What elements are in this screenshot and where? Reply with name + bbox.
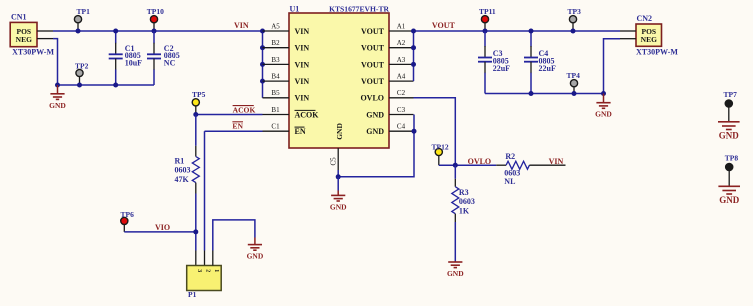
wire GND pins C3 C4 to C5: [338, 115, 414, 177]
wire VOUT right pin bus: [413, 31, 415, 81]
svg-text:C5: C5: [329, 157, 337, 166]
svg-text:1K: 1K: [459, 206, 470, 215]
svg-text:GND: GND: [335, 123, 344, 140]
svg-text:A4: A4: [397, 73, 406, 81]
wire OVLO from U1: [414, 98, 456, 165]
wire P1 pin1 to ground: [213, 220, 255, 251]
svg-text:GND: GND: [719, 195, 740, 205]
junction ground rail/GND4: [601, 91, 606, 96]
svg-text:ACOK: ACOK: [295, 110, 320, 119]
svg-text:A1: A1: [397, 22, 406, 30]
op-amp U1 KTS1677EVH-TR body: [289, 13, 389, 148]
svg-text:VIN: VIN: [295, 94, 310, 103]
svg-text:GND: GND: [49, 101, 66, 110]
svg-text:C1: C1: [271, 123, 280, 131]
pin CN2.2 NEG: [620, 38, 636, 40]
svg-text:GND: GND: [447, 269, 464, 278]
svg-text:2: 2: [205, 269, 211, 272]
capacitor C4: [524, 31, 538, 94]
svg-text:CN2: CN2: [637, 14, 653, 23]
svg-text:TP8: TP8: [725, 153, 739, 162]
pin U1.C3: [389, 114, 414, 116]
svg-text:TP12: TP12: [432, 142, 449, 151]
testpoint TP8: [726, 163, 733, 170]
wire EN vertical to P1: [204, 131, 206, 250]
svg-text:B1: B1: [271, 106, 280, 114]
junction TP4/ground rail: [572, 91, 577, 96]
svg-text:GND: GND: [330, 202, 347, 211]
svg-text:R2: R2: [505, 152, 515, 161]
pin U1.A3: [389, 63, 414, 65]
svg-text:NL: NL: [504, 177, 515, 186]
wire R3 to ground: [454, 222, 456, 261]
svg-text:TP5: TP5: [192, 90, 206, 99]
svg-text:3: 3: [196, 269, 202, 272]
junction bus A3: [411, 62, 416, 67]
junction C4/ground rail: [529, 91, 534, 96]
pin U1.A5: [263, 30, 290, 32]
svg-text:CN1: CN1: [11, 12, 27, 21]
pin TP2: [79, 77, 81, 85]
junction bus A2: [411, 45, 416, 50]
wire right ground rail: [485, 93, 604, 95]
svg-text:TP3: TP3: [568, 7, 582, 16]
testpoint TP10: [150, 16, 157, 23]
pin U1.C5: [337, 148, 339, 170]
junction ground rail / GND: [55, 83, 60, 88]
svg-text:47K: 47K: [175, 175, 190, 184]
capacitor C1: [109, 31, 123, 85]
pin P1.3: [195, 251, 197, 266]
pin U1.C1: [263, 130, 290, 132]
wire ACOK: [196, 114, 263, 116]
connector CN1: [10, 12, 54, 56]
junction TP2/ground rail: [77, 83, 82, 88]
pin R2.1: [496, 164, 506, 166]
junction TP3/VOUT: [571, 29, 576, 34]
pin TP11: [484, 23, 486, 31]
svg-text:B3: B3: [271, 56, 280, 64]
svg-text:VOUT: VOUT: [361, 60, 385, 69]
svg-text:A2: A2: [397, 39, 406, 47]
wire VIO: [124, 231, 196, 233]
svg-text:NC: NC: [164, 58, 176, 67]
ground GND2: [331, 195, 345, 201]
testpoint TP3: [569, 16, 576, 23]
svg-text:VIN: VIN: [549, 157, 564, 166]
svg-text:C3: C3: [397, 106, 406, 114]
svg-text:GND: GND: [366, 127, 384, 136]
pin R1.2: [195, 183, 197, 194]
svg-text:A3: A3: [397, 56, 406, 64]
wire CN2 NEG to ground rail: [604, 39, 621, 94]
pin R3.2: [454, 214, 456, 222]
pin U1.C4: [389, 130, 414, 132]
svg-text:VOUT: VOUT: [361, 27, 385, 36]
svg-text:0603: 0603: [175, 166, 191, 175]
junction TP10/VIN: [152, 29, 157, 34]
pin U1.C2: [389, 97, 414, 99]
connector CN2: [636, 14, 678, 56]
ground GND6 (TP7): [718, 122, 740, 130]
wire U1 C5 down: [337, 170, 339, 177]
pin R3.1: [454, 179, 456, 187]
svg-text:VOUT: VOUT: [361, 77, 385, 86]
ground GND3: [248, 245, 262, 251]
junction bus B3: [260, 62, 265, 67]
capacitor C2: [147, 31, 161, 85]
wire OVLO to R3: [454, 165, 456, 179]
svg-text:VIN: VIN: [295, 77, 310, 86]
testpoint TP1: [74, 16, 81, 23]
ground GND4: [596, 103, 610, 109]
junction TP11/VOUT: [483, 29, 488, 34]
svg-text:OVLO: OVLO: [468, 157, 492, 166]
junction C5/GND net: [336, 174, 341, 179]
junction C4/VOUT: [529, 29, 534, 34]
svg-text:TP6: TP6: [121, 210, 135, 219]
wire VOUT rail: [414, 30, 621, 32]
pin TP8 stub: [728, 171, 730, 187]
pin U1.A1: [389, 30, 414, 32]
svg-text:XT30PW-M: XT30PW-M: [636, 47, 678, 56]
pin TP10: [153, 23, 155, 31]
pin U1.B1: [263, 114, 290, 116]
svg-text:1: 1: [213, 269, 219, 272]
capacitor C3: [478, 31, 492, 94]
pin TP1: [77, 23, 79, 31]
svg-text:U1: U1: [290, 4, 300, 13]
svg-text:22uF: 22uF: [493, 64, 510, 73]
svg-text:B4: B4: [271, 73, 280, 81]
pin P1.1: [212, 251, 214, 266]
svg-text:R1: R1: [175, 157, 185, 166]
pin CN2.1 POS: [620, 30, 636, 32]
svg-text:TP7: TP7: [724, 90, 738, 99]
svg-text:A5: A5: [271, 22, 280, 30]
junction bus B4: [260, 79, 265, 84]
svg-text:C4: C4: [397, 123, 406, 131]
resistor R2: [506, 161, 529, 169]
testpoint TP6: [121, 217, 128, 224]
svg-text:KTS1677EVH-TR: KTS1677EVH-TR: [329, 4, 389, 13]
svg-text:GND: GND: [366, 110, 384, 119]
pin TP5: [195, 106, 197, 115]
svg-text:C2: C2: [397, 89, 406, 97]
pin CN1.2 NEG: [37, 38, 53, 40]
pin R1.1: [195, 146, 197, 157]
svg-text:GND: GND: [247, 252, 264, 261]
svg-text:TP1: TP1: [77, 7, 91, 16]
svg-text:VIO: VIO: [155, 223, 170, 232]
svg-text:OVLO: OVLO: [360, 94, 384, 103]
pin R2.2 and wire to VIN: [529, 164, 565, 166]
wire left ground rail: [58, 84, 155, 86]
junction OVLO/R3: [453, 163, 458, 168]
svg-text:0603: 0603: [459, 197, 475, 206]
wire VIN left pin bus: [262, 31, 264, 98]
ground GND1: [50, 94, 64, 100]
testpoint TP12: [435, 148, 442, 155]
testpoint TP4: [570, 80, 577, 87]
junction C1/ground rail: [113, 83, 118, 88]
svg-text:VOUT: VOUT: [361, 44, 385, 53]
pin P1.2: [204, 251, 206, 266]
junction VOUT bus top: [411, 29, 416, 34]
testpoint TP7: [725, 100, 732, 107]
svg-text:ACOK: ACOK: [233, 106, 256, 115]
svg-text:P1: P1: [188, 290, 197, 299]
svg-text:10uF: 10uF: [125, 58, 142, 67]
svg-text:VOUT: VOUT: [432, 21, 456, 30]
pin CN1.1 POS: [37, 30, 53, 32]
junction VIN bus top: [260, 29, 265, 34]
junction C4 pin/GND net: [412, 129, 417, 134]
wire TP5 to R1: [195, 115, 197, 146]
svg-text:TP10: TP10: [147, 7, 164, 16]
svg-text:EN: EN: [232, 122, 243, 131]
junction bus B2: [260, 45, 265, 50]
pin TP3: [572, 23, 574, 31]
wire R1 to P1 pin3: [195, 194, 197, 251]
pin U1.B5: [263, 97, 290, 99]
pin U1.A2: [389, 47, 414, 49]
pin U1.B3: [263, 63, 290, 65]
junction VIO/R1 net: [193, 229, 198, 234]
svg-text:TP11: TP11: [479, 7, 496, 16]
wire TP12 to R2: [439, 164, 496, 166]
wire CN1 NEG to ground rail: [53, 39, 58, 85]
svg-text:NEG: NEG: [641, 35, 657, 44]
pin U1.A4: [389, 80, 414, 82]
svg-text:VIN: VIN: [234, 21, 249, 30]
wire EN horizontal: [205, 130, 263, 132]
wire VIN rail: [53, 30, 263, 32]
pin U1.B2: [263, 47, 290, 49]
testpoint TP5: [192, 99, 199, 106]
svg-text:B2: B2: [271, 39, 280, 47]
junction C1/VIN: [113, 29, 118, 34]
svg-text:TP4: TP4: [567, 71, 581, 80]
ground GND5: [448, 262, 462, 268]
junction TP5/ACOK: [193, 112, 198, 117]
resistor R3: [452, 187, 459, 214]
svg-text:VIN: VIN: [295, 27, 310, 36]
svg-text:NEG: NEG: [16, 35, 32, 44]
svg-text:VIN: VIN: [295, 60, 310, 69]
pin U1.B4: [263, 80, 290, 82]
svg-text:22uF: 22uF: [539, 64, 556, 73]
ground GND7 (TP8): [718, 186, 740, 194]
testpoint TP11: [481, 16, 488, 23]
svg-text:EN: EN: [295, 127, 306, 136]
svg-text:GND: GND: [719, 131, 740, 141]
junction TP1/VIN: [76, 29, 81, 34]
svg-text:VIN: VIN: [295, 44, 310, 53]
resistor R1: [192, 157, 199, 183]
pin TP4: [573, 87, 575, 94]
pin TP7 stub: [728, 107, 730, 122]
svg-text:GND: GND: [595, 110, 612, 119]
testpoint TP2: [76, 69, 83, 76]
svg-text:R3: R3: [459, 188, 469, 197]
connector P1: [187, 266, 222, 299]
svg-text:TP2: TP2: [75, 62, 89, 71]
pin TP12: [438, 156, 440, 166]
svg-text:B5: B5: [271, 89, 280, 97]
pin TP6: [123, 225, 125, 232]
svg-text:XT30PW-M: XT30PW-M: [12, 48, 54, 57]
